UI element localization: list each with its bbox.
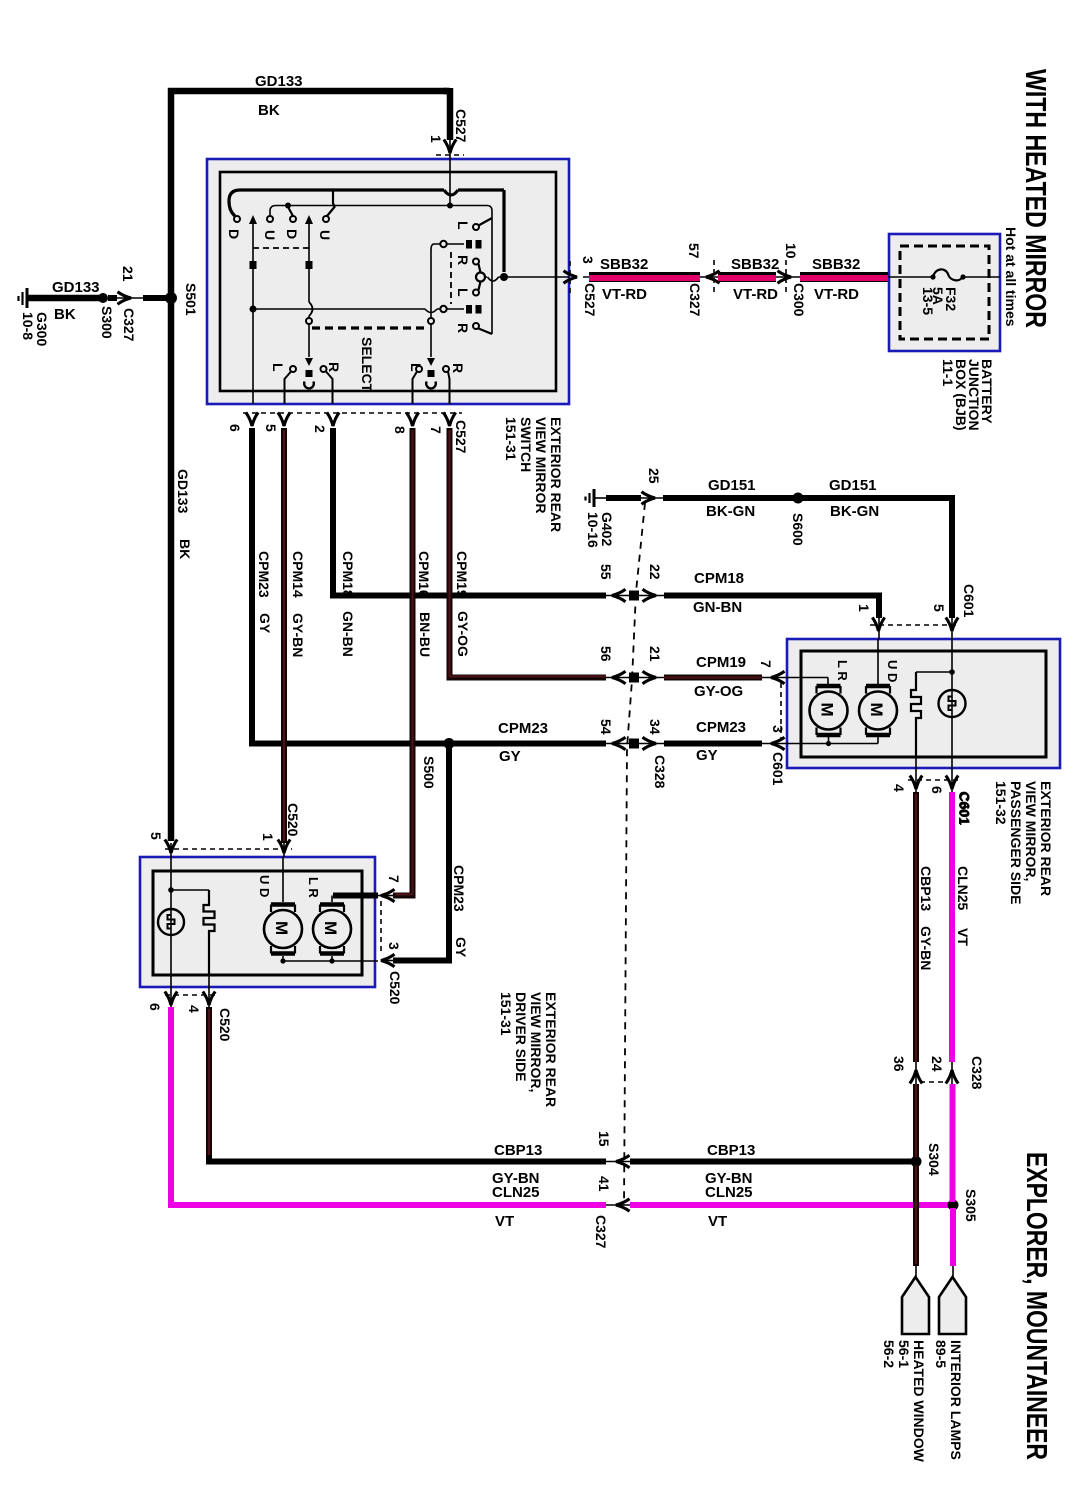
pole 1 wiper arrow [249, 215, 257, 224]
connector C601 pin 3 arrow [771, 737, 785, 749]
connector C527 pin 1 arrow [444, 140, 456, 154]
svg-text:7: 7 [386, 875, 402, 883]
svg-text:6: 6 [227, 424, 243, 432]
dashed connector edge at pin 1 [436, 154, 464, 156]
svg-text:R: R [326, 362, 342, 372]
connector HEATED WINDOW terminal [915, 1266, 917, 1280]
svg-text:D: D [226, 229, 242, 239]
wire hop arc LCR over select riser [425, 309, 437, 313]
contact U1 [267, 216, 273, 222]
SELECT mechanical dashed link [312, 326, 428, 329]
splice S300 [98, 293, 108, 303]
svg-text:R: R [455, 255, 471, 265]
contact D2 [290, 216, 296, 222]
driver motor U D [264, 857, 302, 961]
contact D1 [234, 216, 240, 222]
passenger heater top link [916, 671, 952, 673]
node driver pin5 branch [168, 887, 174, 893]
svg-text:3: 3 [580, 256, 596, 264]
connector harness dashed line C328/C327 [624, 503, 645, 1205]
svg-text:151-31: 151-31 [498, 992, 514, 1036]
svg-text:CBP13: CBP13 [494, 1142, 542, 1159]
contact R (bottom-left) [321, 366, 327, 372]
passenger heated mirror lamp [939, 690, 966, 717]
battery junction box BJB (blue outline) [889, 234, 1000, 351]
passenger mirror inner housing box [801, 651, 1046, 757]
wire passenger pin 3 common line [787, 743, 878, 745]
driver mirror inner housing box [153, 871, 362, 975]
exterior rear view mirror driver side box (blue outline) [140, 857, 375, 987]
wire CPM18 to passenger pin 1 [664, 596, 879, 619]
blade L-A to riser [479, 218, 493, 226]
switch inner housing box [220, 172, 556, 391]
connector C520 pin 5 arrow [165, 840, 177, 854]
in-line connector C328 pin 36 arrow [910, 1070, 922, 1084]
svg-text:57: 57 [686, 243, 702, 259]
exterior rear view mirror passenger side box (blue outline) [787, 639, 1060, 768]
contact R (select upper) [473, 259, 479, 265]
svg-text:CPM19: CPM19 [696, 654, 746, 671]
svg-text:56-1: 56-1 [896, 1340, 912, 1368]
blade R-B to riser [479, 329, 493, 335]
svg-text:C328: C328 [652, 755, 668, 789]
svg-text:6: 6 [147, 1003, 163, 1011]
svg-text:C601: C601 [957, 792, 973, 826]
svg-text:BK: BK [54, 306, 76, 323]
svg-text:EXTERIOR REAR: EXTERIOR REAR [1038, 781, 1054, 896]
svg-text:CLN25: CLN25 [955, 866, 971, 911]
svg-text:GY: GY [696, 747, 718, 764]
connector C520 bottom dashed edge [165, 994, 215, 996]
svg-text:DRIVER SIDE: DRIVER SIDE [513, 992, 529, 1081]
svg-text:R: R [455, 323, 471, 333]
svg-text:VIEW MIRROR: VIEW MIRROR [533, 417, 549, 513]
svg-text:CPM19: CPM19 [454, 551, 470, 598]
svg-text:S305: S305 [963, 1189, 979, 1222]
blade R-A to pole [479, 264, 481, 273]
wire thin into switch pin 1 [449, 140, 451, 159]
connector C527 pin 7 arrow [443, 413, 455, 427]
svg-text:CPM16: CPM16 [416, 551, 432, 598]
connector C527 pin 5 arrow [278, 413, 290, 427]
svg-text:15: 15 [596, 1131, 612, 1147]
in-line connector C327 pin 57 arrow [706, 271, 720, 283]
svg-text:CPM18: CPM18 [340, 551, 356, 598]
svg-text:C328: C328 [969, 1056, 985, 1090]
pole 2 shaft with hop over LCR line [308, 222, 310, 318]
svg-text:L: L [455, 221, 471, 230]
svg-text:C327: C327 [121, 308, 137, 342]
svg-text:1: 1 [856, 604, 872, 612]
wire hop arc pole2 over LCR [309, 302, 313, 316]
svg-text:C527: C527 [453, 109, 469, 143]
svg-text:CLN25: CLN25 [492, 1184, 540, 1201]
splice S501 [165, 292, 177, 304]
svg-text:C327: C327 [593, 1215, 609, 1249]
passenger heater element [911, 672, 921, 757]
wire stub S300 to C327 [108, 295, 117, 301]
BJB fuse dashed box [900, 246, 989, 339]
pole 2 shaft lower [308, 324, 310, 357]
blade L to pin 8 [413, 372, 418, 405]
svg-text:C601: C601 [961, 584, 977, 618]
svg-text:BN-BU: BN-BU [417, 612, 433, 657]
svg-text:GY-BN: GY-BN [918, 926, 934, 970]
wire driver motors common to pin 3 [283, 960, 378, 962]
connector C520 pin 4 arrow [203, 992, 215, 1006]
svg-text:BK-GN: BK-GN [706, 503, 755, 520]
svg-text:4: 4 [891, 784, 907, 792]
bottom-left pole square [306, 370, 313, 377]
wire CPM23 to passenger pin 3 [664, 741, 762, 747]
svg-text:GD151: GD151 [829, 477, 877, 494]
svg-text:S304: S304 [926, 1143, 942, 1176]
splice S304 [911, 1156, 922, 1167]
contact L (bottom-left) [290, 366, 296, 372]
bottom-left group: pole arrow down [305, 358, 313, 366]
svg-text:GY: GY [453, 937, 469, 958]
svg-text:L: L [455, 288, 471, 297]
passenger motor L R [810, 686, 848, 744]
svg-text:VT: VT [495, 1213, 514, 1230]
svg-text:SWITCH: SWITCH [518, 417, 534, 472]
node junction pin1 lead to feed line [447, 203, 453, 209]
svg-text:Hot at all times: Hot at all times [1003, 227, 1019, 327]
driver heater element [204, 890, 215, 975]
svg-text:PASSENGER SIDE: PASSENGER SIDE [1008, 781, 1024, 904]
svg-text:C520: C520 [285, 803, 301, 837]
svg-text:151-32: 151-32 [993, 781, 1009, 825]
svg-text:24: 24 [929, 1056, 945, 1072]
svg-text:GY: GY [257, 613, 273, 634]
svg-text:VIEW MIRROR,: VIEW MIRROR, [528, 992, 544, 1092]
svg-text:CLN25: CLN25 [705, 1184, 753, 1201]
svg-text:CBP13: CBP13 [707, 1142, 755, 1159]
svg-text:EXPLORER, MOUNTAINEER: EXPLORER, MOUNTAINEER [1020, 1152, 1052, 1460]
svg-text:56: 56 [598, 646, 614, 662]
dashed connector edge C327 [713, 260, 715, 295]
svg-text:10-8: 10-8 [20, 312, 36, 340]
select riser (group A poles to bottom-right pole) [431, 244, 440, 357]
svg-text:S600: S600 [790, 513, 806, 546]
contact L (select lower) [473, 290, 479, 296]
svg-text:CPM23: CPM23 [451, 865, 467, 912]
splice S500 [444, 738, 455, 749]
exterior rear view mirror switch box (blue outline) [207, 159, 569, 404]
svg-text:U: U [262, 230, 278, 240]
svg-text:INTERIOR LAMPS: INTERIOR LAMPS [948, 1340, 964, 1460]
connector INTERIOR LAMPS terminal [952, 1266, 954, 1280]
svg-text:C300: C300 [791, 283, 807, 317]
wire GD133 vertical and top run to switch pin 1 [171, 91, 447, 841]
in-line connector C327 pin 41 arrow [606, 1204, 630, 1206]
svg-text:10-16: 10-16 [585, 512, 601, 548]
in-line connector C327 pin 15 arrow [606, 1161, 630, 1163]
wire hop arc on bus [444, 190, 458, 195]
wire CBP13 right of C327 [630, 1159, 912, 1165]
select group dashed link vertical [450, 252, 452, 304]
svg-text:22: 22 [647, 564, 663, 580]
svg-text:VT-RD: VT-RD [602, 286, 647, 303]
wire CPM23 from switch pin 6 [252, 428, 606, 744]
wire CLN25 passenger pin 6 drop [952, 792, 953, 1266]
blade to D2 contact [288, 207, 293, 216]
svg-text:GD133: GD133 [255, 73, 303, 90]
svg-text:M: M [867, 703, 886, 717]
svg-text:21: 21 [120, 266, 136, 282]
wire passenger pin 7 feed to LR motor [787, 678, 828, 685]
in-line connector C328 pin 25 arrow [642, 492, 656, 504]
svg-text:VT-RD: VT-RD [814, 286, 859, 303]
wire inside BJB to fuse [889, 276, 1000, 278]
svg-text:5: 5 [148, 832, 164, 840]
ground G402 [586, 489, 595, 507]
driver heated mirror lamp [158, 909, 184, 935]
in-line connector C327 pin 21 arrow [118, 292, 132, 304]
svg-text:S500: S500 [421, 756, 437, 789]
passenger lamp feed [951, 639, 953, 757]
connector C601 bottom dashed edge [908, 779, 960, 781]
connector C527 pin 6 arrow [246, 413, 258, 427]
contact L (bottom-right) [416, 366, 422, 372]
svg-text:M: M [321, 921, 340, 935]
in-line connector C328 pins 55/22 [606, 595, 664, 597]
wire SBB32 segment 1 [583, 277, 706, 278]
wire CPM18 from switch pin 2 [333, 428, 606, 596]
node pole1 LCR junction [250, 306, 257, 313]
blade R to pin 7 [448, 372, 450, 405]
contact L (select top) [473, 224, 479, 230]
blade R to pin 2 [326, 372, 333, 405]
wire CPM19 from switch pin 7 [450, 428, 607, 678]
svg-text:EXTERIOR REAR: EXTERIOR REAR [543, 992, 559, 1107]
svg-text:C527: C527 [582, 283, 598, 317]
svg-text:25: 25 [646, 468, 662, 484]
svg-text:C327: C327 [687, 283, 703, 317]
svg-text:EXTERIOR REAR: EXTERIOR REAR [548, 417, 564, 532]
svg-text:CPM23: CPM23 [696, 719, 746, 736]
svg-text:1: 1 [260, 833, 276, 841]
passenger motor U D [859, 639, 897, 744]
group B pin squares [466, 305, 472, 314]
svg-text:11-1: 11-1 [940, 359, 956, 386]
pole 2 pin square [306, 261, 313, 269]
svg-text:SBB32: SBB32 [600, 256, 648, 273]
svg-text:21: 21 [647, 646, 663, 662]
connector C527 pin 2 arrow [327, 413, 339, 427]
svg-text:7: 7 [428, 426, 444, 434]
svg-text:R: R [450, 363, 466, 373]
svg-text:GY-OG: GY-OG [694, 683, 743, 700]
node heater to lamp line [949, 669, 955, 675]
svg-text:36: 36 [891, 1056, 907, 1072]
node bus to pin3 line [500, 273, 508, 281]
svg-text:VT-RD: VT-RD [733, 286, 778, 303]
wire CLN25 driver pin 6 drop and run [171, 1007, 606, 1205]
connector C520 pin 7 arrow [381, 889, 395, 901]
svg-text:6: 6 [929, 786, 945, 794]
node LR motor to common [826, 741, 831, 746]
wire CBP13 passenger pin 4 drop [913, 792, 919, 1266]
svg-text:U: U [317, 230, 333, 240]
connector C601 pin 4 arrow [910, 776, 922, 790]
svg-text:L R: L R [835, 660, 850, 681]
svg-text:GY-BN: GY-BN [290, 613, 306, 657]
switch feed line (thin) U1 D2 to select riser [270, 206, 492, 335]
in-line connector C328 pins 56/21 [606, 677, 664, 679]
svg-text:8: 8 [392, 426, 408, 434]
svg-text:U D: U D [885, 660, 900, 682]
connector C601 pin 6 arrow [946, 776, 958, 790]
connector C520 right dashed edge [380, 901, 382, 955]
svg-text:S300: S300 [99, 306, 115, 339]
svg-text:CPM18: CPM18 [694, 570, 744, 587]
connector C527 pin 8 arrow [406, 413, 418, 427]
wire GD151 to passenger mirror pin 5 [663, 498, 952, 618]
LCR contact circle [440, 306, 446, 312]
svg-text:SELECT: SELECT [359, 337, 375, 393]
svg-text:VT: VT [708, 1213, 727, 1230]
driver lamp feed from pin 5 [171, 857, 209, 975]
svg-text:SBB32: SBB32 [731, 256, 779, 273]
wire CPM23 branch to driver pin 3 [393, 746, 449, 961]
svg-text:C520: C520 [387, 971, 403, 1005]
blade L-B to pole [479, 282, 481, 291]
svg-text:CBP13: CBP13 [918, 866, 934, 911]
svg-text:GN-BN: GN-BN [693, 599, 742, 616]
svg-text:5: 5 [931, 604, 947, 612]
svg-text:13-5: 13-5 [920, 287, 936, 315]
pole1 shaft lower to pin 6 [252, 309, 254, 404]
node D2 tap [285, 203, 291, 209]
connector C527 bottom dashed edge [243, 412, 462, 414]
svg-text:5: 5 [263, 424, 279, 432]
svg-text:C601: C601 [770, 752, 786, 786]
connector C520 pin 6 arrow [165, 992, 177, 1006]
svg-text:HEATED WINDOW: HEATED WINDOW [911, 1340, 927, 1463]
select link contact circle (left) [306, 318, 312, 324]
connector C601 pin 7 arrow [771, 671, 785, 683]
in-line connector C300 pin 10 arrow [778, 271, 792, 283]
svg-text:GY-OG: GY-OG [455, 611, 471, 657]
svg-text:M: M [818, 703, 837, 717]
svg-text:55: 55 [598, 564, 614, 580]
select pole circle [476, 273, 485, 282]
svg-text:GY: GY [499, 748, 521, 765]
svg-text:BK: BK [258, 102, 280, 119]
svg-text:C527: C527 [453, 420, 469, 454]
wire GD151 ground stub [594, 497, 606, 499]
svg-text:WITH HEATED MIRROR: WITH HEATED MIRROR [1019, 69, 1051, 328]
wire driver pin 7 feed (thick) [333, 893, 378, 899]
group A pin squares [466, 240, 472, 249]
driver motor L R [313, 896, 351, 962]
in-line connector C328 pin 24 arrow [946, 1070, 958, 1084]
svg-text:2: 2 [312, 425, 328, 433]
bus drop to U2 contact [327, 191, 335, 216]
svg-text:3: 3 [386, 942, 402, 950]
select link contact circle (right) [428, 318, 434, 324]
wire CPM16 from switch pin 8 to driver pin 7 [393, 428, 413, 896]
svg-text:3: 3 [770, 725, 786, 733]
svg-text:L R: L R [306, 877, 321, 898]
bottom-right group: pole arrow down [427, 358, 435, 366]
svg-text:L: L [270, 363, 286, 372]
svg-text:34: 34 [647, 719, 663, 735]
wire SBB32 segment 2 [706, 277, 791, 278]
svg-text:VIEW MIRROR,: VIEW MIRROR, [1023, 781, 1039, 881]
svg-text:S501: S501 [183, 283, 199, 316]
pole 1 pin square [250, 261, 257, 269]
svg-text:BK: BK [177, 539, 193, 559]
blade L to pin 5 [285, 372, 292, 405]
pole 2 wiper arrow [305, 215, 313, 224]
mechanical link dashed (U/D poles) [253, 247, 309, 249]
connector C601 pin 1 arrow [872, 618, 884, 632]
wire CPM14 from switch pin 5 to driver pin 1 [281, 428, 287, 843]
svg-text:M: M [272, 921, 291, 935]
svg-text:GD151: GD151 [708, 477, 756, 494]
svg-text:BK-GN: BK-GN [830, 503, 879, 520]
svg-text:56-2: 56-2 [881, 1340, 897, 1368]
bus right drop to pin3 node [502, 190, 505, 272]
wire GD133 from G300 to S300 [27, 295, 100, 302]
connector C520 pin 3 arrow [381, 954, 395, 966]
contact R (bottom-right) [443, 366, 449, 372]
svg-text:CPM23: CPM23 [256, 551, 272, 598]
svg-text:CPM23: CPM23 [498, 720, 548, 737]
pole 1 shaft [252, 222, 254, 309]
node LR motor to common [329, 958, 334, 963]
svg-text:VT: VT [955, 928, 971, 946]
switch bus bar (thick) with hop over pin1 lead [229, 190, 504, 216]
svg-text:C520: C520 [217, 1008, 233, 1042]
bottom-left pole socket circle [304, 382, 314, 389]
connector C601 left dashed edge [780, 683, 782, 738]
connector C520 pin 1 arrow [278, 840, 290, 854]
svg-text:7: 7 [758, 660, 774, 668]
pin 3 output line with hop [485, 276, 569, 278]
bottom-right pole socket circle [426, 382, 436, 389]
wire CBP13 driver pin 4 drop [206, 1007, 606, 1162]
dashed connector edge at pin 3 [569, 261, 571, 293]
svg-text:89-5: 89-5 [933, 1340, 949, 1368]
group A contact circle [440, 241, 446, 247]
bottom-right pole square [428, 370, 435, 377]
splice S600 [793, 493, 804, 504]
node UD motor to common [280, 958, 285, 963]
wire GD133 C327 to S501 [143, 295, 168, 301]
contact U2 [323, 216, 329, 222]
svg-text:SBB32: SBB32 [812, 256, 860, 273]
in-line connector C328 pins 54/34 [606, 743, 664, 745]
wire thin into passenger pin 5 [951, 618, 953, 639]
svg-text:D: D [284, 229, 300, 239]
connector C601 pin 5 arrow [946, 618, 958, 632]
svg-text:4: 4 [186, 1005, 202, 1013]
ground G300 [19, 288, 28, 308]
svg-text:54: 54 [598, 719, 614, 735]
svg-text:GD133: GD133 [175, 469, 191, 514]
dashed connector edge C300 [785, 260, 787, 295]
svg-text:151-31: 151-31 [503, 417, 519, 461]
connector C520 top dashed edge [165, 848, 292, 850]
fuse F32 element [933, 269, 963, 280]
svg-text:1: 1 [428, 135, 444, 143]
svg-text:41: 41 [596, 1176, 612, 1192]
LCR common line [253, 308, 464, 310]
connector C328 dashed edge (bottom right) [920, 1081, 948, 1083]
